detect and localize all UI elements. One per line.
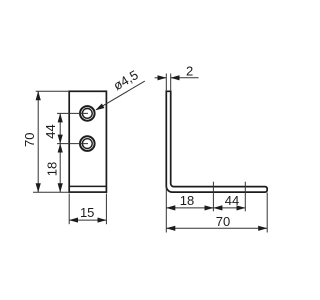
svg-text:15: 15 — [80, 205, 94, 220]
svg-text:70: 70 — [22, 133, 37, 147]
svg-text:ø4,5: ø4,5 — [111, 67, 141, 93]
svg-text:2: 2 — [186, 63, 193, 78]
svg-text:18: 18 — [180, 193, 194, 208]
svg-text:44: 44 — [225, 193, 239, 208]
svg-text:44: 44 — [43, 124, 58, 138]
svg-text:18: 18 — [45, 162, 60, 176]
svg-text:70: 70 — [216, 214, 230, 229]
